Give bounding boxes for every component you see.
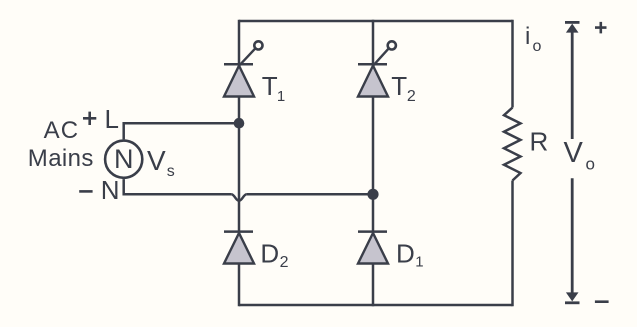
svg-text:o: o [533,38,542,55]
svg-text:D: D [396,238,415,268]
svg-text:i: i [525,23,530,50]
svg-text:N: N [101,175,120,205]
svg-text:1: 1 [277,88,285,105]
svg-text:T: T [391,71,407,101]
svg-text:2: 2 [407,88,416,105]
svg-text:N: N [114,144,134,174]
svg-text:2: 2 [280,254,289,271]
svg-text:s: s [167,163,175,180]
svg-text:L: L [105,104,119,134]
svg-text:V: V [564,137,584,169]
svg-text:AC: AC [44,117,80,144]
svg-text:1: 1 [415,254,423,271]
svg-text:T: T [262,71,278,101]
svg-text:V: V [147,145,166,176]
svg-text:R: R [530,126,549,156]
svg-text:Mains: Mains [28,145,94,172]
svg-text:o: o [586,155,595,174]
svg-text:D: D [260,238,279,268]
